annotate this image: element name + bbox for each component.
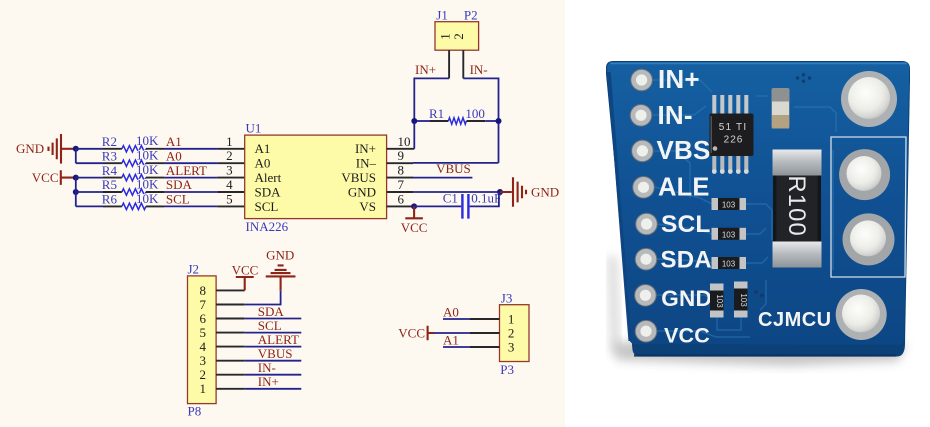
connector J3 body — [500, 305, 530, 362]
svg-text:1: 1 — [226, 134, 233, 149]
svg-text:GND: GND — [531, 184, 559, 199]
IC U1 pins top — [712, 95, 748, 114]
svg-text:IN-: IN- — [470, 62, 488, 77]
photo shadow — [609, 255, 619, 356]
shunt resistor R100 — [773, 150, 822, 268]
svg-text:7: 7 — [200, 297, 207, 312]
svg-text:VCC: VCC — [401, 220, 428, 235]
svg-text:A0: A0 — [166, 148, 182, 163]
capacitor C1 — [414, 192, 499, 219]
pcb board side — [606, 61, 910, 357]
svg-text:51 TI: 51 TI — [719, 122, 748, 133]
wire pin7 riser — [245, 291, 281, 305]
J2 pin 6 wire SDA — [216, 304, 301, 319]
svg-text:SCL: SCL — [258, 318, 282, 333]
U1 pin 10 stub — [387, 148, 415, 150]
J2 pin 5 wire SCL — [216, 318, 301, 333]
svg-text:P8: P8 — [188, 404, 202, 419]
resistor R4 — [76, 162, 245, 181]
IC U1 body — [710, 114, 754, 157]
svg-text:IN-: IN- — [258, 360, 276, 375]
board bottom edge line — [634, 354, 896, 356]
svg-text:VBUS: VBUS — [258, 346, 293, 361]
ground symbol right — [500, 177, 559, 207]
svg-text:2: 2 — [508, 325, 515, 340]
svg-text:P2: P2 — [464, 8, 478, 23]
svg-text:VS: VS — [359, 199, 376, 214]
J2 pin 8 stub — [216, 289, 245, 291]
svg-text:1: 1 — [200, 381, 207, 396]
svg-text:J2: J2 — [188, 261, 200, 276]
pcb left bevel — [607, 72, 631, 341]
pad IN- — [630, 105, 652, 127]
svg-text:GND: GND — [266, 247, 294, 262]
power symbol VCC at J2 — [232, 262, 259, 290]
power symbol VCC left — [32, 170, 76, 185]
svg-text:103: 103 — [722, 260, 736, 269]
svg-text:INA226: INA226 — [246, 219, 289, 234]
capacitor near IC — [772, 88, 790, 129]
resistor R3 — [76, 148, 245, 167]
svg-text:226: 226 — [724, 135, 744, 146]
wire GND rail — [75, 149, 77, 163]
svg-text:IN+: IN+ — [415, 62, 436, 77]
svg-text:A1: A1 — [443, 332, 459, 347]
svg-text:A1: A1 — [255, 141, 271, 156]
power symbol VCC at J3 — [398, 325, 434, 340]
svg-text:A1: A1 — [166, 134, 182, 149]
svg-text:ALERT: ALERT — [258, 332, 299, 347]
svg-text:R4: R4 — [102, 163, 118, 178]
wire VBUS — [413, 177, 472, 179]
J1 pin 2 stub — [462, 50, 464, 78]
svg-text:10K: 10K — [136, 191, 159, 206]
mount hole mid-1 — [839, 149, 890, 200]
pcb top bevel — [610, 62, 907, 64]
svg-text:VBS: VBS — [657, 135, 711, 165]
svg-text:IN+: IN+ — [258, 374, 279, 389]
J2 pin numbers — [200, 283, 207, 396]
wire pin7 to GND — [413, 191, 500, 193]
svg-text:4: 4 — [200, 339, 207, 354]
svg-text:103: 103 — [715, 294, 724, 308]
node junction IN-/R1 — [496, 118, 502, 124]
J2 pin 4 wire ALERT — [216, 332, 301, 347]
svg-text:CJMCU: CJMCU — [758, 309, 832, 331]
svg-text:Alert: Alert — [255, 170, 282, 185]
svg-text:SDA: SDA — [661, 247, 712, 274]
op-amp U1 body INA226 — [245, 135, 387, 219]
capacitor C1 labels — [443, 190, 502, 205]
svg-text:P3: P3 — [500, 362, 514, 377]
resistor R2 — [76, 133, 245, 152]
svg-text:103: 103 — [739, 293, 748, 307]
svg-text:8: 8 — [398, 163, 405, 178]
smd resistor 103 c — [712, 257, 747, 269]
U1 pin 7 stub — [387, 191, 413, 193]
svg-text:SDA: SDA — [258, 304, 285, 319]
svg-text:GND: GND — [16, 141, 44, 156]
svg-text:9: 9 — [398, 148, 405, 163]
J2 pin 1 wire IN+ — [216, 374, 301, 389]
svg-text:IN-: IN- — [658, 100, 693, 130]
smd resistor 103 a — [712, 198, 747, 210]
node pin7/C1 — [497, 189, 503, 195]
svg-text:3: 3 — [200, 353, 207, 368]
resistor R5 — [76, 176, 245, 195]
J3 pin 1 wire A0 — [443, 304, 500, 319]
svg-text:103: 103 — [722, 230, 736, 239]
J3 pin 2 wire VCC — [434, 332, 500, 334]
svg-text:VCC: VCC — [664, 323, 710, 347]
svg-text:SDA: SDA — [166, 177, 193, 192]
fiducial dot bottom — [754, 290, 764, 298]
white box outline — [831, 137, 906, 277]
wire VCC rail — [75, 178, 77, 207]
resistor R1 — [414, 118, 498, 124]
photo background — [565, 0, 930, 427]
J3 pin numbers — [508, 311, 515, 354]
svg-text:VBUS: VBUS — [436, 161, 471, 176]
svg-text:ALERT: ALERT — [166, 163, 207, 178]
svg-text:10: 10 — [398, 134, 411, 149]
U1 right pin names — [341, 141, 376, 214]
node VCC rail R4 — [73, 175, 79, 181]
ground symbol at J2 — [266, 247, 296, 291]
svg-text:A0: A0 — [255, 156, 271, 171]
pad GND — [635, 285, 657, 307]
pad SCL — [636, 213, 658, 235]
svg-text:IN+: IN+ — [658, 64, 700, 94]
svg-text:IN–: IN– — [356, 156, 377, 171]
node GND rail top — [73, 146, 79, 152]
wire pin9 to IN- net — [413, 162, 499, 164]
node junction IN+/R1 — [411, 118, 417, 124]
svg-text:GND: GND — [348, 184, 376, 199]
connector J1/P2 labels — [436, 8, 477, 23]
svg-text:VCC: VCC — [398, 325, 425, 340]
smd resistor 103 b — [712, 228, 747, 240]
svg-text:SDA: SDA — [255, 184, 282, 199]
smd resistor vertical d — [710, 284, 724, 318]
svg-text:5: 5 — [226, 191, 233, 206]
svg-text:103: 103 — [722, 201, 736, 210]
svg-text:6: 6 — [398, 191, 405, 206]
svg-text:ALE: ALE — [658, 173, 710, 201]
svg-text:R1: R1 — [429, 106, 444, 121]
svg-text:VBUS: VBUS — [341, 170, 376, 185]
connector J2 body — [188, 276, 217, 404]
svg-text:J1: J1 — [436, 8, 448, 23]
svg-text:5: 5 — [200, 325, 207, 340]
svg-text:SCL: SCL — [661, 211, 711, 238]
svg-text:U1: U1 — [246, 121, 262, 136]
connector J1 body — [435, 22, 479, 51]
pad VCC — [635, 320, 657, 342]
smd resistor vertical e — [734, 282, 748, 318]
mount hole mid-2 — [843, 213, 895, 265]
U1 left pin names — [255, 141, 282, 214]
J3 pin 3 wire A1 — [443, 332, 500, 347]
svg-text:7: 7 — [398, 177, 405, 192]
pcb board face — [607, 62, 909, 345]
wire IN- vertical — [463, 78, 498, 162]
pcb traces — [652, 80, 836, 337]
node pin6/C1/VCC — [411, 203, 417, 209]
svg-text:VCC: VCC — [32, 170, 59, 185]
svg-text:C1: C1 — [443, 190, 458, 205]
svg-text:1: 1 — [508, 311, 515, 326]
resistor R6 — [76, 191, 245, 210]
svg-text:R2: R2 — [102, 134, 117, 149]
svg-text:100: 100 — [465, 106, 485, 121]
svg-text:R3: R3 — [102, 148, 117, 163]
U1 pin 8 stub — [387, 177, 413, 179]
svg-text:2: 2 — [451, 33, 466, 40]
wire IN+ vertical — [414, 78, 449, 148]
svg-text:2: 2 — [200, 367, 207, 382]
resistor R1 labels — [429, 106, 485, 121]
svg-text:10K: 10K — [136, 148, 159, 163]
U1 left pin numbers — [226, 134, 233, 207]
J2 pin 7 stub — [216, 304, 245, 306]
svg-text:4: 4 — [226, 177, 233, 192]
schematic background — [0, 0, 565, 427]
svg-text:SCL: SCL — [255, 199, 279, 214]
svg-text:10K: 10K — [136, 162, 159, 177]
pad IN+ — [631, 69, 653, 91]
svg-text:3: 3 — [226, 163, 233, 178]
mount hole top-right — [841, 71, 897, 127]
U1 right pin numbers — [398, 134, 411, 207]
svg-text:R5: R5 — [102, 177, 117, 192]
svg-text:J3: J3 — [501, 290, 513, 305]
svg-text:VCC: VCC — [232, 262, 259, 277]
svg-text:8: 8 — [200, 283, 207, 298]
U1 pin 6 stub — [387, 205, 415, 207]
J1 pin 1 stub — [448, 50, 450, 78]
svg-text:3: 3 — [508, 339, 515, 354]
J2 pin 2 wire IN- — [216, 360, 301, 375]
U1 pin 9 stub — [387, 162, 413, 164]
svg-text:10K: 10K — [136, 176, 159, 191]
IC U1 pins bottom — [712, 156, 749, 174]
svg-text:IN+: IN+ — [355, 141, 376, 156]
svg-text:A0: A0 — [443, 304, 459, 319]
ground symbol left — [16, 134, 76, 164]
pad ALE — [633, 177, 655, 199]
svg-text:GND: GND — [661, 286, 712, 311]
pad SDA — [635, 248, 657, 270]
node VCC rail R5 — [73, 189, 79, 195]
pad VBS — [632, 140, 654, 162]
J2 pin 3 wire VBUS — [216, 346, 301, 361]
svg-text:SCL: SCL — [166, 192, 190, 207]
mount hole bottom-right — [836, 289, 887, 340]
svg-text:R100: R100 — [783, 175, 810, 236]
IC U1 markings — [711, 116, 747, 153]
svg-text:2: 2 — [226, 148, 233, 163]
fiducial dots top — [796, 73, 812, 83]
svg-text:R6: R6 — [102, 192, 118, 207]
svg-text:0.1uF: 0.1uF — [471, 190, 501, 205]
svg-text:6: 6 — [200, 311, 207, 326]
svg-text:10K: 10K — [136, 133, 159, 148]
power symbol VCC at pin6 — [401, 206, 428, 234]
